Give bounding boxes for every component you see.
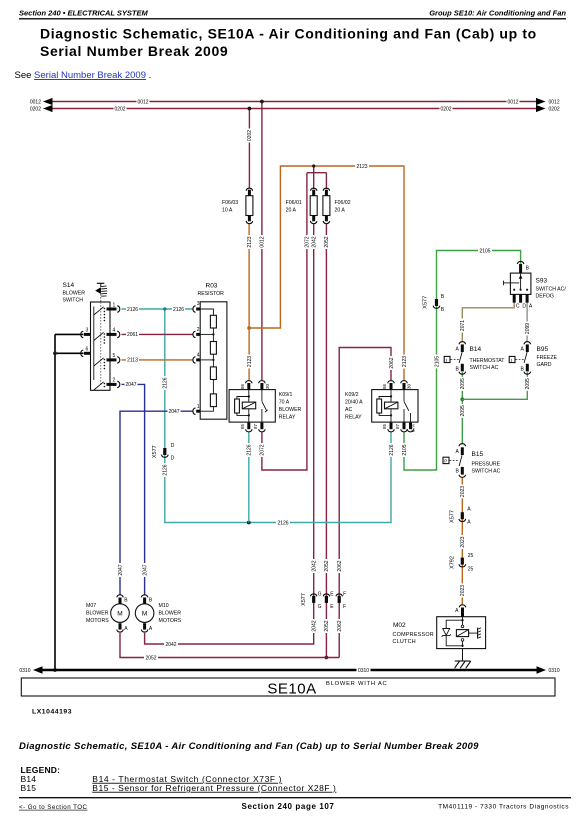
svg-text:2062: 2062 [389, 357, 395, 368]
svg-text:2126: 2126 [389, 444, 395, 455]
wire 2072 fuse bar to relay K09/1 pin 87 [259, 173, 311, 470]
switch S93 pin C [513, 294, 516, 302]
svg-text:R03: R03 [206, 283, 218, 290]
wire 2095 freeze gard B95 branch [462, 372, 531, 399]
wire riser to fuse F06/01 [313, 173, 315, 189]
svg-text:2023: 2023 [460, 536, 466, 547]
wire 2126 relay K09/1 pin 85 [246, 432, 253, 523]
svg-text:86: 86 [240, 384, 245, 390]
svg-text:D: D [171, 456, 175, 462]
svg-text:2095: 2095 [460, 405, 466, 416]
svg-text:SE10A: SE10A [267, 681, 316, 698]
relay K09/2 pin 87 [395, 423, 407, 432]
svg-text:2099: 2099 [525, 323, 531, 334]
relay K09/2 pin 87A [407, 423, 416, 432]
svg-text:0202: 0202 [440, 106, 451, 112]
compressor clutch M02 [393, 605, 486, 668]
svg-text:G: G [318, 604, 322, 610]
thermostat switch B14 pin A [459, 342, 466, 345]
svg-text:M: M [142, 611, 147, 618]
svg-text:BLOWER: BLOWER [86, 611, 109, 617]
svg-text:Section 240 page 107: Section 240 page 107 [242, 802, 335, 811]
connector X577 pins G E F [301, 592, 346, 610]
resistor R03 pin 3 [193, 301, 200, 313]
svg-text:F06/03: F06/03 [222, 200, 238, 206]
svg-text:M: M [117, 611, 122, 618]
svg-text:MOTORS: MOTORS [86, 618, 109, 624]
svg-text:4: 4 [197, 353, 200, 359]
svg-text:F06/01: F06/01 [286, 200, 302, 206]
switch S93 pin A [526, 294, 529, 302]
svg-text:2042: 2042 [312, 620, 318, 631]
wire ground from switch S14 pins 3 and 6 [53, 334, 83, 671]
wire 0012 bus [30, 98, 560, 106]
svg-text:TM401119 - 7330 Tractors Diagn: TM401119 - 7330 Tractors Diagnostics [438, 804, 569, 811]
svg-text:B15: B15 [472, 451, 484, 458]
svg-text:M07: M07 [86, 603, 96, 609]
svg-text:D: D [171, 443, 175, 449]
svg-text:87: 87 [395, 424, 400, 430]
fuse F06/01 [286, 188, 318, 223]
svg-text:0202: 0202 [114, 106, 125, 112]
svg-text:1: 1 [197, 404, 200, 410]
blower motor M10 [135, 595, 181, 632]
switch S93 pin B [517, 261, 529, 273]
thermostat switch B14 contact [459, 352, 462, 363]
clutch coil [461, 625, 464, 628]
svg-text:MOTORS: MOTORS [159, 618, 182, 624]
svg-text:25: 25 [468, 566, 474, 572]
svg-text:SWITCH AC/: SWITCH AC/ [536, 286, 567, 292]
svg-text:RELAY: RELAY [345, 415, 362, 421]
svg-text:Group SE10: Air Conditioning a: Group SE10: Air Conditioning and Fan [429, 9, 566, 18]
PAGE FOOTER [19, 741, 571, 811]
freeze gard B95 pin A [524, 342, 531, 345]
svg-text:G: G [318, 592, 322, 598]
switch S14 pin 2 [107, 378, 120, 388]
svg-text:B15 - Sensor for Refrigerant P: B15 - Sensor for Refrigerant Pressure (C… [92, 783, 336, 793]
svg-text:2126: 2126 [163, 377, 169, 388]
fuse F06/03 [222, 188, 253, 223]
wire 0012 drop to K09/1 pin 30 [259, 100, 266, 381]
svg-text:2047: 2047 [118, 564, 124, 575]
svg-text:0012: 0012 [30, 100, 41, 106]
svg-text:20 A: 20 A [286, 207, 297, 213]
svg-text:2105: 2105 [402, 444, 408, 455]
svg-text:X792: X792 [450, 556, 456, 569]
svg-text:2052: 2052 [145, 655, 156, 661]
svg-text:X577: X577 [152, 445, 158, 458]
pressure switch B15 pressure actuator [443, 457, 449, 463]
svg-text:RELAY: RELAY [279, 415, 296, 421]
PAGE HEADER [15, 9, 567, 82]
svg-text:2126: 2126 [277, 520, 288, 526]
svg-text:10 A: 10 A [222, 207, 233, 213]
svg-text:COMPRESSOR: COMPRESSOR [393, 632, 434, 638]
svg-text:Diagnostic Schematic, SE10A -: Diagnostic Schematic, SE10A - Air Condit… [40, 26, 537, 42]
svg-text:2123: 2123 [247, 356, 253, 367]
svg-text:D: D [522, 303, 526, 309]
svg-text:F06/02: F06/02 [335, 200, 351, 206]
svg-text:2052: 2052 [324, 236, 330, 247]
svg-text:0012: 0012 [260, 236, 266, 247]
relay K09/2 contact [404, 390, 411, 423]
wire 0310 ground bus [19, 666, 559, 674]
blower switch S14 [63, 282, 120, 390]
svg-text:2042: 2042 [312, 236, 318, 247]
relay K09/1 pin 86 [240, 381, 252, 390]
svg-text:0012: 0012 [137, 99, 148, 105]
freeze gard B95 thermal actuator [509, 356, 515, 362]
wire 0202 drop to fuse F06/03 [246, 107, 253, 188]
fuse feed bar [307, 172, 327, 174]
svg-text:86: 86 [382, 384, 387, 390]
switch S93 pin D [519, 294, 522, 302]
svg-text:2: 2 [197, 327, 200, 333]
svg-text:20/40 A: 20/40 A [345, 400, 363, 406]
blower motor M07 pin B [117, 595, 124, 598]
relay K09/2 coil [377, 390, 398, 423]
manual lever symbol [95, 283, 107, 302]
svg-text:2023: 2023 [460, 486, 466, 497]
svg-text:30: 30 [406, 384, 411, 390]
svg-text:2095: 2095 [525, 378, 531, 389]
wire 2042 fuse F06/01 to blower motor M10 [145, 224, 318, 648]
blower motor M10 pin B [141, 595, 148, 598]
svg-text:0202: 0202 [247, 130, 253, 141]
svg-text:Section 240 • ELECTRICAL SYSTE: Section 240 • ELECTRICAL SYSTEM [19, 9, 149, 18]
wire 2099 switch S93 pin A to freeze gard B95 [524, 303, 531, 342]
resistor R03 pin 4 [193, 353, 200, 364]
svg-text:X577: X577 [301, 593, 307, 606]
blower motor M07 pin A [119, 623, 122, 629]
wire 2113 switch S14 pin 5 to resistor R03 pin 4 [122, 357, 193, 364]
svg-text:SWITCH: SWITCH [63, 297, 84, 303]
svg-text:RESISTOR: RESISTOR [198, 291, 225, 297]
pressure switch B15 [443, 444, 501, 478]
pressure switch B15 contact [459, 455, 462, 466]
blower motor M07 [86, 595, 129, 632]
fuse F06/02 [323, 188, 351, 223]
relay K09/1 pin 87 [253, 423, 265, 432]
svg-text:2061: 2061 [127, 332, 138, 338]
wire 2061 switch S14 pin 4 to resistor R03 pin 2 [122, 331, 193, 338]
thermostat switch B14 pin B [461, 364, 464, 372]
wire 2095 thermostat switch B14 to pressure switch B15 [459, 372, 466, 444]
relay K09/2 [345, 381, 418, 432]
svg-text:2042: 2042 [165, 642, 176, 648]
relay K09/2 pin 86 [382, 381, 394, 390]
switch S93 AC/defog [504, 261, 567, 309]
svg-text:2062: 2062 [337, 560, 343, 571]
svg-text:2126: 2126 [173, 307, 184, 313]
wire 2105 relay K09/2 pin 87 to switch S93 pin B [401, 248, 521, 471]
svg-text:2123: 2123 [356, 164, 367, 170]
svg-text:0012: 0012 [507, 99, 518, 105]
svg-text:2072: 2072 [260, 444, 266, 455]
svg-text:70 A: 70 A [279, 400, 290, 406]
svg-text:20 A: 20 A [335, 207, 346, 213]
switch S14 pin 6 [81, 347, 91, 357]
svg-text:85: 85 [382, 424, 387, 430]
svg-text:BLOWER WITH AC: BLOWER WITH AC [326, 681, 387, 687]
resistor R03 internals [200, 309, 216, 411]
svg-text:3: 3 [197, 301, 200, 307]
svg-text:X577: X577 [423, 296, 429, 309]
wire 2126 vertical to relays [162, 307, 395, 526]
svg-text:FREEZE: FREEZE [537, 355, 558, 361]
pressure switch B15 pin A [459, 444, 466, 447]
switch S14 pin 3 [81, 328, 91, 338]
svg-text:B15: B15 [21, 783, 37, 793]
switch S14 pin 4 [107, 328, 120, 338]
svg-text:LX1044193: LX1044193 [32, 709, 72, 716]
svg-text:2105: 2105 [434, 356, 440, 367]
svg-text:B14: B14 [470, 346, 482, 353]
svg-text:SWITCH AC: SWITCH AC [472, 469, 501, 475]
svg-text:3: 3 [86, 328, 89, 334]
svg-text:2071: 2071 [460, 320, 466, 331]
wire 2123 from fuse F06/03 to relay K09/1 pin 86 [246, 224, 253, 381]
pressure switch B15 pin B [461, 467, 464, 475]
svg-text:87A: 87A [411, 424, 416, 432]
svg-text:SWITCH AC: SWITCH AC [470, 365, 499, 371]
svg-text:K09/1: K09/1 [279, 392, 293, 398]
svg-text:30: 30 [265, 384, 270, 390]
svg-text:2095: 2095 [460, 378, 466, 389]
svg-text:2052: 2052 [324, 560, 330, 571]
thermostat switch B14 thermal actuator [444, 356, 450, 362]
svg-text:0202: 0202 [549, 107, 560, 113]
svg-text:X577: X577 [450, 510, 456, 523]
ground chassis [455, 649, 471, 669]
svg-text:BLOWER: BLOWER [159, 611, 182, 617]
wire riser to fuse F06/02 [325, 173, 327, 189]
wire 2047 switch S14 pin 2 to blower motor M10 [122, 381, 149, 594]
wire 2052 horizontal to blower motor M07 [120, 633, 339, 661]
svg-text:0310: 0310 [358, 668, 369, 674]
svg-text:<- Go to Section TOC: <- Go to Section TOC [19, 804, 88, 811]
svg-text:Serial Number Break 2009: Serial Number Break 2009 [40, 43, 228, 59]
wire 2052 fuse F06/02 down [323, 224, 330, 658]
svg-text:2126: 2126 [247, 444, 253, 455]
relay K09/1 pin 30 [259, 381, 270, 390]
svg-text:S93: S93 [536, 278, 548, 285]
svg-text:2052: 2052 [324, 620, 330, 631]
svg-text:2: 2 [113, 378, 116, 384]
connector X792 pins 25 [450, 553, 474, 573]
connector X577 pins A [450, 506, 472, 525]
connector X577 pins D [152, 443, 175, 462]
svg-text:CLUTCH: CLUTCH [393, 639, 416, 645]
wire 2071 switch S93 pin C to thermostat switch B14 [459, 303, 514, 342]
svg-text:0310: 0310 [19, 668, 30, 674]
blower motor M10 pin A [143, 623, 146, 629]
switch S14 pin 5 [107, 353, 120, 363]
svg-text:C: C [516, 303, 520, 309]
svg-text:2042: 2042 [312, 560, 318, 571]
wire 2126 switch S14 pin 1 to resistor R03 pin 3 [122, 306, 193, 313]
relay K09/1 pin 85 [240, 423, 252, 432]
svg-text:F: F [343, 604, 346, 610]
relay K09/2 pin 85 [382, 423, 394, 432]
diode [443, 629, 450, 636]
thermostat switch B14 [444, 342, 505, 374]
svg-text:2105: 2105 [479, 248, 490, 254]
wire 2047 resistor R03 pin 1 to blower motor M07 [117, 408, 193, 594]
svg-text:2062: 2062 [337, 620, 343, 631]
svg-text:1: 1 [113, 302, 116, 308]
relay K09/1 coil [235, 390, 256, 423]
freeze gard B95 contact [524, 352, 527, 363]
svg-text:2123: 2123 [247, 236, 253, 247]
svg-text:2126: 2126 [163, 464, 169, 475]
svg-text:M02: M02 [393, 622, 406, 629]
connector X577 pins B [423, 294, 445, 313]
svg-text:THERMOSTAT: THERMOSTAT [470, 358, 506, 364]
svg-text:2047: 2047 [168, 409, 179, 415]
svg-text:0012: 0012 [549, 100, 560, 106]
relay K09/1 contact [262, 390, 268, 423]
clutch plate [469, 632, 478, 634]
svg-text:2047: 2047 [142, 564, 148, 575]
switch S14 internals [94, 302, 105, 390]
svg-text:0202: 0202 [30, 107, 41, 113]
svg-text:2072: 2072 [305, 236, 311, 247]
freeze gard B95 [509, 342, 557, 374]
svg-text:See Serial Number Break 2009 .: See Serial Number Break 2009 . [15, 70, 152, 81]
compressor clutch M02 internals [442, 617, 481, 647]
svg-text:25: 25 [468, 553, 474, 559]
svg-text:M10: M10 [159, 603, 169, 609]
svg-text:BLOWER: BLOWER [63, 290, 86, 296]
svg-text:Diagnostic Schematic, SE10A -: Diagnostic Schematic, SE10A - Air Condit… [19, 741, 479, 752]
svg-text:2113: 2113 [127, 358, 138, 364]
resistor R03 [193, 283, 227, 420]
svg-text:DEFOG: DEFOG [536, 293, 554, 299]
wire 2123 branch to fuse bar and relay K09/2 pin 30 [249, 163, 408, 380]
system frame SE10A [21, 678, 555, 698]
svg-text:F: F [343, 592, 346, 598]
resistor R03 pin 2 [193, 327, 200, 338]
wire 2023 pressure switch B15 to compressor clutch M02 [459, 478, 466, 605]
svg-text:PRESSURE: PRESSURE [472, 462, 501, 468]
svg-text:2123: 2123 [402, 356, 408, 367]
svg-text:2126: 2126 [127, 307, 138, 313]
svg-text:4: 4 [113, 328, 116, 334]
relay K09/1 [229, 381, 301, 432]
svg-text:6: 6 [86, 347, 89, 353]
svg-text:2047: 2047 [125, 382, 136, 388]
svg-text:K09/2: K09/2 [345, 392, 359, 398]
freeze gard B95 pin B [526, 364, 529, 372]
switch S14 pin 1 [107, 302, 120, 312]
svg-text:87: 87 [253, 424, 258, 430]
relay K09/2 pin 30 [401, 381, 412, 390]
wire 2062 relay K09/2 pin 86 branch [336, 348, 395, 658]
svg-text:5: 5 [113, 353, 116, 359]
svg-text:S14: S14 [63, 282, 75, 289]
svg-text:AC: AC [345, 407, 352, 413]
compressor clutch M02 pin A [459, 605, 466, 608]
svg-text:P: P [444, 459, 447, 464]
wire 0202 bus [30, 105, 560, 113]
svg-text:B95: B95 [537, 346, 549, 353]
svg-text:2023: 2023 [460, 585, 466, 596]
svg-text:85: 85 [240, 424, 245, 430]
svg-text:GARD: GARD [537, 362, 552, 368]
svg-text:BLOWER: BLOWER [279, 407, 302, 413]
switch S93 internals [504, 273, 529, 291]
resistor R03 pin 1 [193, 404, 200, 415]
svg-text:0310: 0310 [549, 668, 560, 674]
